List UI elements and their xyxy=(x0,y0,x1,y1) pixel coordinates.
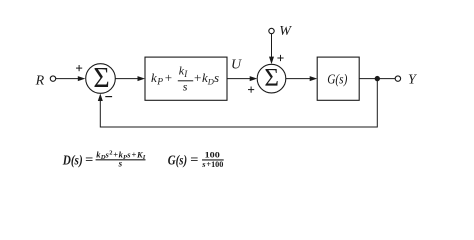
svg-text:=: = xyxy=(85,153,93,167)
plus sign at sum2 top input xyxy=(277,57,283,59)
wire sum2 to G block xyxy=(286,78,311,80)
svg-text:+: + xyxy=(165,70,172,85)
wire W down to sum2 xyxy=(271,34,273,58)
svg-text:s: s xyxy=(183,80,188,94)
svg-text:2: 2 xyxy=(109,150,112,157)
svg-text:100: 100 xyxy=(205,150,220,160)
terminal W xyxy=(269,28,274,33)
wire sum1 to D block xyxy=(115,78,139,80)
svg-text:+: + xyxy=(132,149,137,159)
minus sign at sum1 feedback input xyxy=(105,96,112,98)
svg-text:Σ: Σ xyxy=(264,64,279,91)
svg-text:=: = xyxy=(190,153,198,167)
svg-text:Σ: Σ xyxy=(93,63,109,94)
svg-text:D(s): D(s) xyxy=(62,154,83,169)
svg-text:U: U xyxy=(231,58,242,73)
equation D(s) xyxy=(62,149,146,168)
wire R to sum1 xyxy=(56,78,80,80)
svg-text:k: k xyxy=(151,70,157,85)
svg-text:+100: +100 xyxy=(206,159,223,169)
plus sign at sum1 input xyxy=(76,67,82,69)
svg-text:G(s): G(s) xyxy=(168,154,187,169)
svg-text:G(s): G(s) xyxy=(327,73,347,88)
plus sign at sum2 left input xyxy=(248,89,254,91)
svg-text:+: + xyxy=(113,149,118,159)
block G(s) xyxy=(317,57,359,100)
svg-text:s: s xyxy=(214,70,219,85)
wire G block to Y xyxy=(359,78,395,80)
wire D block to sum2 xyxy=(227,78,251,80)
svg-text:R: R xyxy=(35,73,45,88)
summing junction U1 xyxy=(86,64,116,94)
svg-text:s: s xyxy=(118,159,123,169)
equation G(s) xyxy=(168,150,224,170)
block D(s) PID xyxy=(145,57,227,100)
junction dot xyxy=(375,76,380,81)
svg-text:+: + xyxy=(194,70,201,85)
terminal Y xyxy=(395,76,400,81)
svg-text:W: W xyxy=(279,24,292,39)
terminal R xyxy=(50,76,55,81)
wire feedback path xyxy=(100,79,377,127)
summing junction U2 xyxy=(257,64,286,93)
svg-text:P: P xyxy=(156,78,163,88)
